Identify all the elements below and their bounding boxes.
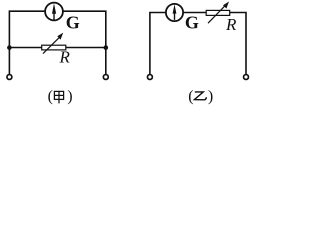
galvanometer G (right circuit): [166, 4, 183, 21]
wire: left circuit middle branch wire: [10, 47, 106, 49]
caption (甲): [48, 88, 73, 105]
svg-text:R: R: [59, 48, 71, 67]
wire: right circuit loop (left vertical, top wire, right vertical): [150, 13, 246, 75]
svg-text:(: (: [48, 88, 53, 105]
svg-text:G: G: [66, 13, 80, 33]
terminal: right circuit right binding post: [244, 75, 249, 80]
rheostat R (left circuit): [42, 33, 66, 54]
node: right junction: [104, 45, 109, 50]
terminal: right circuit left binding post: [147, 75, 152, 80]
wire: left circuit outer loop (left vertical, top wire, right vertical): [9, 11, 105, 74]
svg-text:G: G: [185, 13, 199, 33]
svg-text:): ): [208, 88, 213, 105]
node: left junction: [7, 45, 12, 50]
terminal: left circuit left binding post: [7, 75, 12, 80]
rheostat R (right circuit): [206, 2, 230, 24]
svg-text:): ): [67, 88, 72, 105]
terminal: left circuit right binding post: [103, 75, 108, 80]
caption (乙): [188, 88, 213, 105]
svg-text:(: (: [188, 88, 193, 105]
svg-text:R: R: [225, 15, 237, 34]
galvanometer G (left circuit): [45, 3, 63, 21]
